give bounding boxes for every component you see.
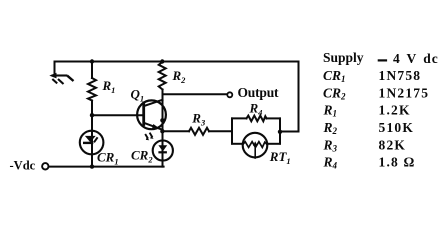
svg-text:1N758: 1N758 (379, 68, 422, 83)
svg-text:1.2K: 1.2K (379, 103, 411, 118)
svg-text:1N2175: 1N2175 (379, 86, 430, 101)
svg-text:4: 4 (393, 51, 400, 66)
svg-text:V: V (407, 51, 417, 66)
svg-text:82K: 82K (379, 138, 407, 153)
svg-text:Supply: Supply (323, 50, 364, 65)
svg-text:Output: Output (238, 85, 280, 100)
svg-text:-Vdc: -Vdc (10, 159, 36, 173)
svg-text:dc: dc (423, 51, 439, 66)
svg-text:510K: 510K (379, 120, 415, 135)
svg-text:1.8 Ω: 1.8 Ω (379, 155, 416, 170)
